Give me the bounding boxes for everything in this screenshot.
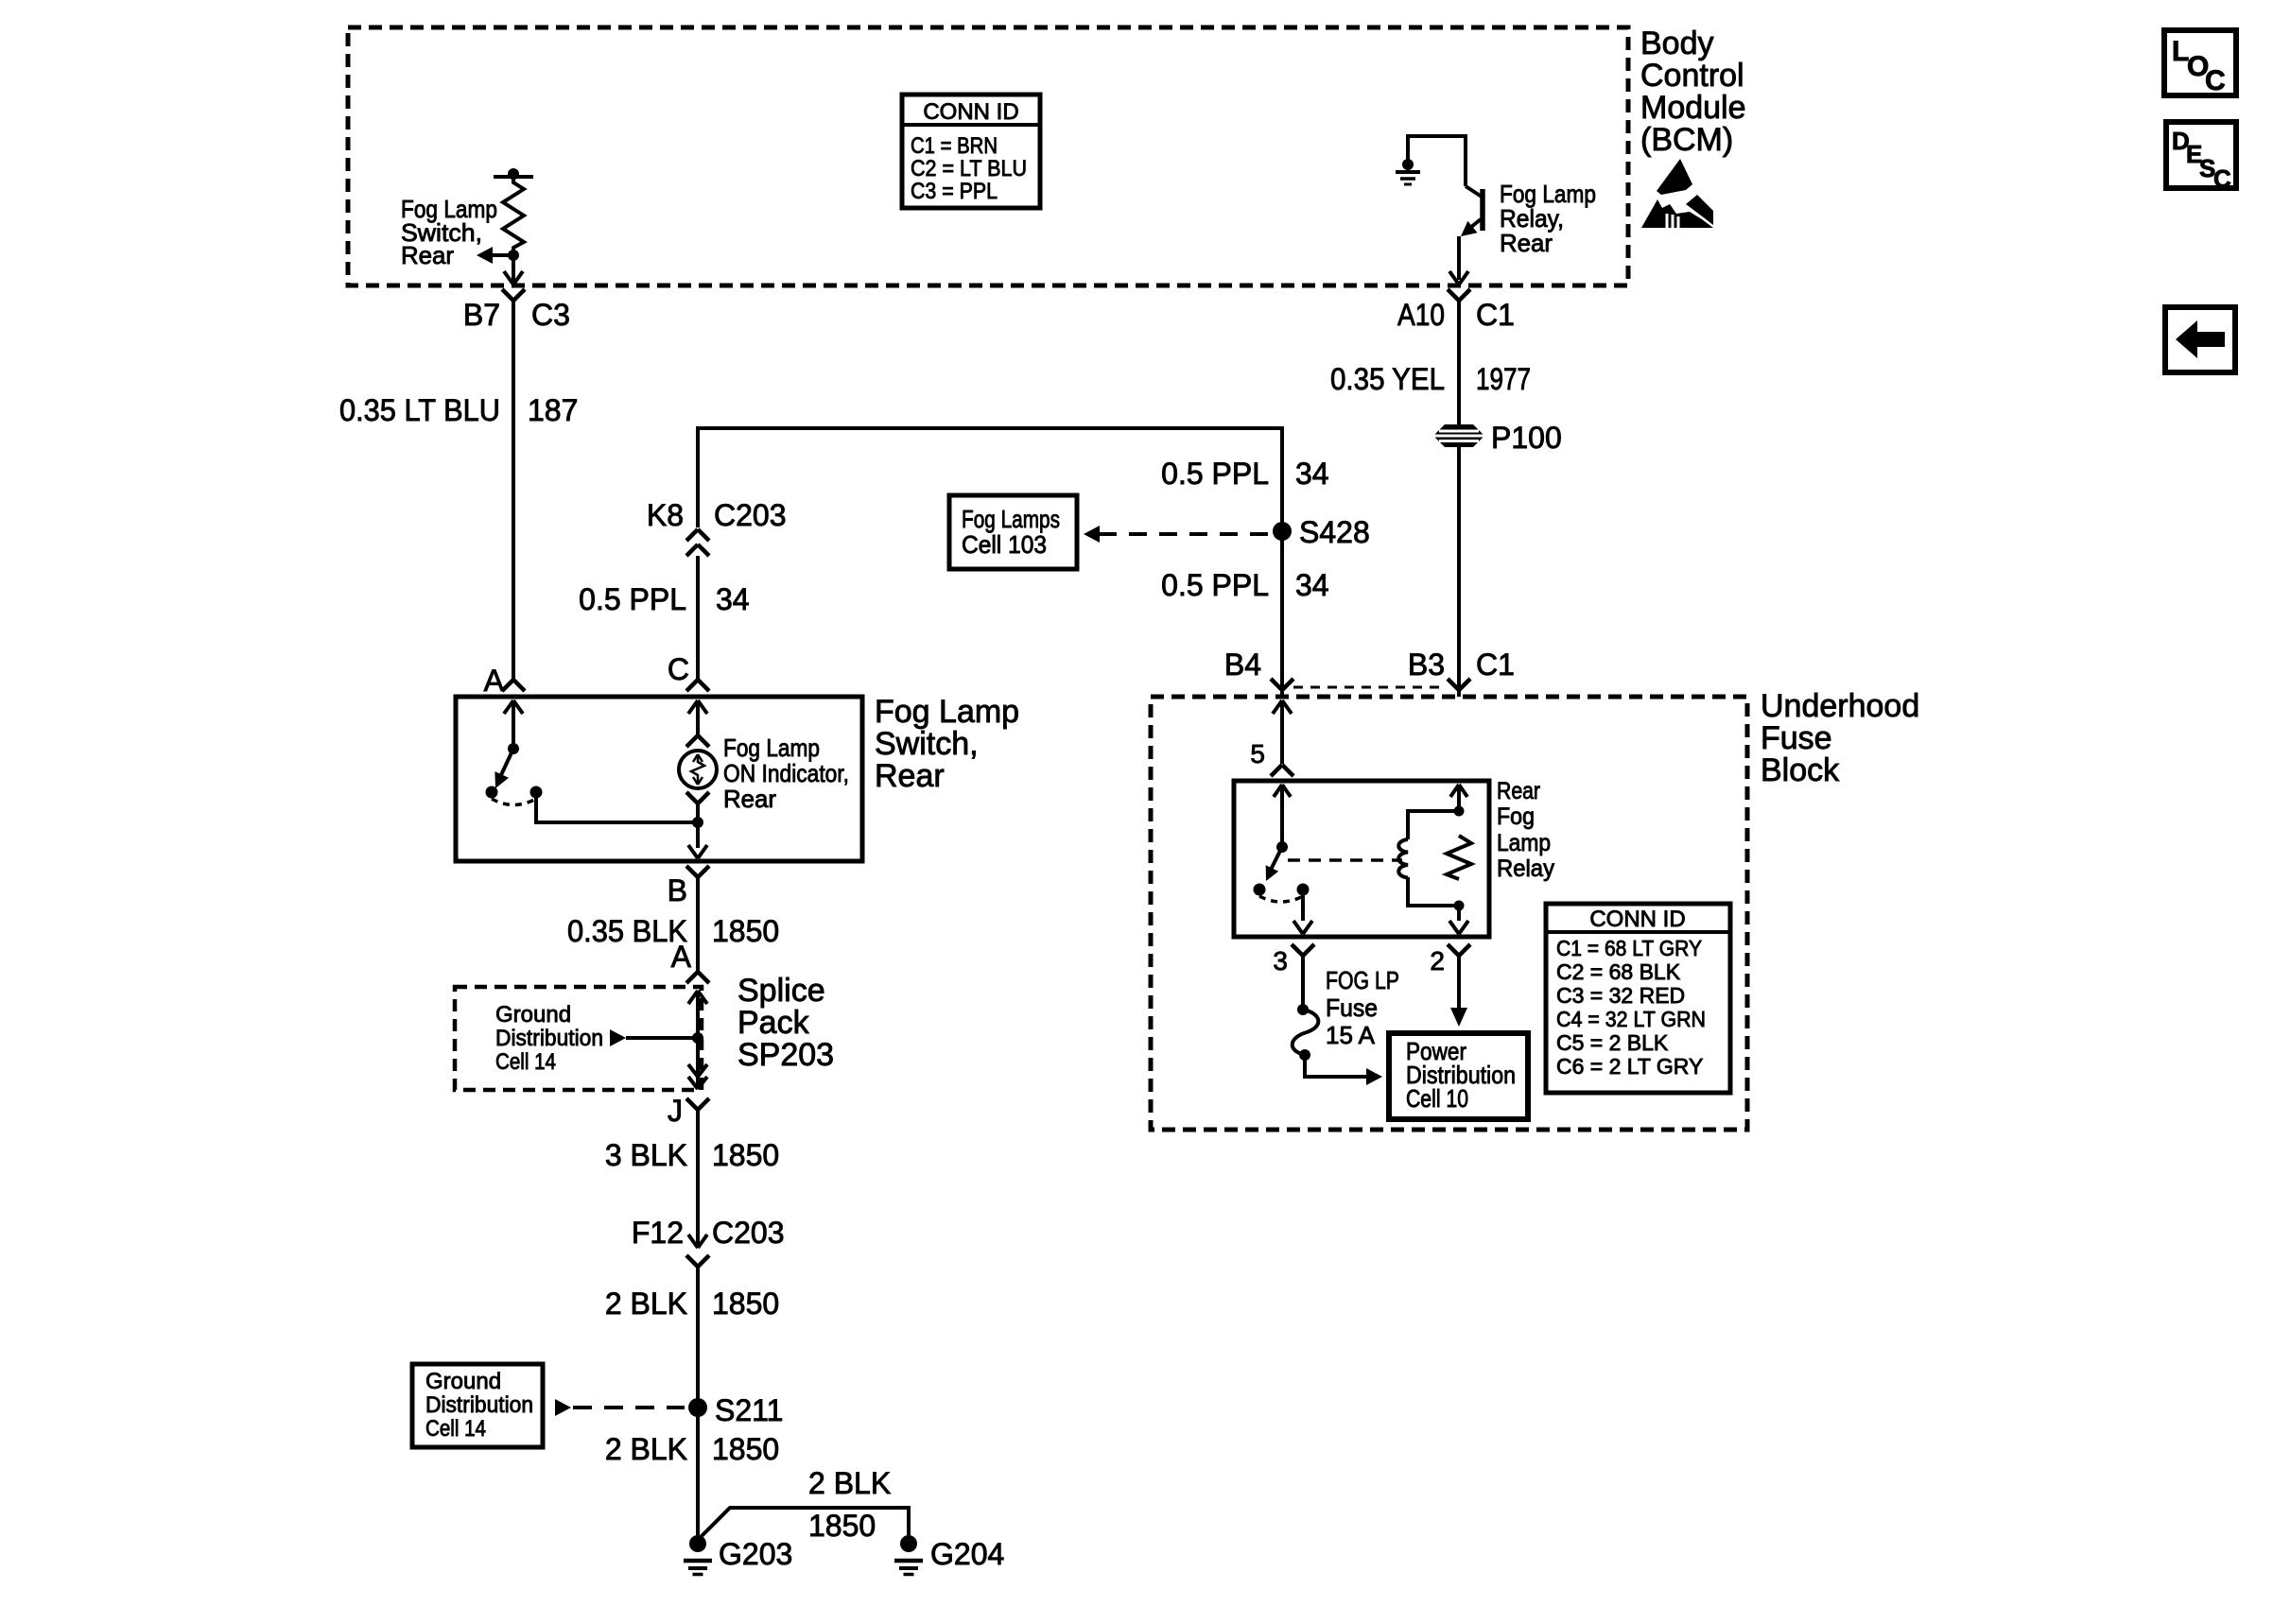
label FOG LP Fuse 15 A [1326, 966, 1399, 1049]
svg-text:Cell 10: Cell 10 [1406, 1084, 1468, 1113]
connector A10 / C1 (BCM) [1397, 289, 1515, 332]
wire S211 to G203 [696, 1408, 700, 1535]
svg-text:C2 = LT BLU: C2 = LT BLU [911, 156, 1027, 181]
svg-text:Lamp: Lamp [1497, 830, 1551, 856]
svg-text:C6 = 2 LT GRY: C6 = 2 LT GRY [1556, 1054, 1703, 1079]
svg-text:C2 = 68 BLK: C2 = 68 BLK [1556, 959, 1681, 984]
svg-text:Distribution: Distribution [425, 1392, 533, 1418]
svg-text:CONN ID: CONN ID [923, 99, 1018, 125]
svg-text:A10: A10 [1397, 298, 1445, 332]
svg-text:(BCM): (BCM) [1640, 122, 1733, 158]
connector B7 / C3 (BCM) [463, 289, 570, 332]
icon LOC box [2164, 30, 2236, 96]
ESD sensitive device symbol [1641, 159, 1713, 228]
svg-text:Distribution: Distribution [495, 1026, 603, 1051]
wire fuse to power distribution [1305, 1055, 1382, 1085]
svg-text:1850: 1850 [712, 914, 779, 948]
svg-text:Rear: Rear [1497, 778, 1540, 804]
label Fog Lamp Relay, Rear [1500, 180, 1596, 257]
svg-text:A: A [671, 940, 692, 974]
module U1 Body Control Module (BCM) dashed outline [348, 27, 1628, 285]
ground (BCM internal) [1396, 159, 1420, 184]
svg-text:Fog Lamp: Fog Lamp [875, 694, 1019, 730]
icon back-arrow box [2165, 307, 2235, 372]
resistor relay suppression resistor [1447, 836, 1471, 879]
label 2 BLK 1850 (G204 branch) [808, 1466, 891, 1543]
svg-text:3 BLK: 3 BLK [605, 1138, 687, 1172]
svg-text:C3 = PPL: C3 = PPL [911, 179, 998, 204]
connector B4 (underhood fuse block) [1224, 648, 1293, 697]
svg-text:0.35 LT BLU: 0.35 LT BLU [339, 393, 500, 427]
wire pin 5 into relay [1274, 785, 1291, 847]
splice S211 [688, 1393, 783, 1427]
svg-text:C1: C1 [1476, 648, 1515, 682]
box Fog Lamps Cell 103 [949, 495, 1077, 569]
label 0.5 PPL 34 (upper right) [1161, 457, 1328, 491]
splice S428 [1273, 515, 1370, 549]
wire pin 1 into relay [1450, 785, 1467, 811]
wire ground to transistor collector [1408, 136, 1466, 186]
svg-text:Switch,: Switch, [875, 726, 979, 762]
label Body Control Module (BCM) [1640, 26, 1746, 158]
label Ground Distribution Cell 14 (SP203) [495, 1002, 603, 1075]
svg-text:Cell 14: Cell 14 [495, 1049, 556, 1075]
svg-text:Fuse: Fuse [1761, 720, 1832, 756]
switch relay contact (rear fog lamp relay) [1254, 841, 1310, 902]
wire 2 BLK 1850 (C203 to S211) [696, 1267, 700, 1408]
connector relay pin 5 [1250, 739, 1293, 776]
wire 0.35 YEL 1977 [1457, 301, 1461, 425]
wire pin C into switch [688, 700, 707, 735]
wire switch common to node B [536, 792, 703, 828]
svg-text:0.5 PPL: 0.5 PPL [579, 582, 686, 616]
connector B3 / C1 (underhood fuse block) [1408, 648, 1515, 697]
dashed linkage relay armature to coil [1288, 858, 1402, 862]
svg-text:34: 34 [716, 582, 750, 616]
wire B4 into fuse block [1273, 700, 1292, 764]
svg-text:C1: C1 [1476, 298, 1515, 332]
svg-text:Control: Control [1640, 58, 1744, 94]
connector pin B (fog lamp switch) [668, 866, 709, 907]
svg-text:0.5 PPL: 0.5 PPL [1161, 457, 1269, 491]
svg-text:G204: G204 [930, 1537, 1004, 1571]
switch SW1 fog lamp switch contacts [486, 743, 543, 805]
label 0.35 BLK 1850 [567, 914, 779, 948]
table CONN ID (underhood fuse block connectors) [1546, 904, 1730, 1093]
wire S428 to B4 [1280, 531, 1284, 690]
table CONN ID (BCM connectors) [902, 95, 1040, 208]
box Ground Distribution Cell 14 (S211) [412, 1364, 543, 1447]
svg-text:1850: 1850 [712, 1138, 779, 1172]
svg-text:Body: Body [1640, 26, 1714, 61]
wire pin 3 to fuse [1301, 956, 1305, 1010]
svg-text:C1 = BRN: C1 = BRN [911, 133, 998, 159]
svg-text:Fog Lamp: Fog Lamp [723, 734, 820, 762]
svg-text:B4: B4 [1224, 648, 1261, 682]
connector pin C (fog lamp switch) [668, 652, 709, 691]
wire 3 BLK 1850 (J to C203) [696, 1110, 700, 1231]
dashed connector tie B4-B3 [1293, 686, 1446, 689]
svg-text:1977: 1977 [1476, 362, 1531, 396]
inline connector P100 [1433, 421, 1562, 455]
svg-text:0.5 PPL: 0.5 PPL [1161, 568, 1269, 602]
label 2 BLK 1850 (upper) [605, 1287, 779, 1321]
connector pin A (splice pack) [671, 940, 709, 983]
wire pin A into switch [504, 700, 523, 749]
svg-text:0.35 BLK: 0.35 BLK [567, 914, 687, 948]
label 0.5 PPL 34 (left) [579, 582, 749, 616]
label 0.5 PPL 34 (lower right) [1161, 568, 1328, 602]
svg-text:C3 = 32 RED: C3 = 32 RED [1556, 983, 1685, 1008]
component fog lamp switch box [456, 697, 862, 861]
svg-text:1850: 1850 [712, 1432, 779, 1466]
svg-text:Module: Module [1640, 90, 1746, 126]
svg-text:Fuse: Fuse [1326, 993, 1378, 1022]
resistor fog-lamp-switch input pull-up (inside BCM) [494, 168, 533, 261]
svg-text:Rear: Rear [875, 758, 945, 794]
svg-text:ON Indicator,: ON Indicator, [723, 759, 849, 787]
svg-text:187: 187 [528, 393, 578, 427]
connector F12 / C203 [632, 1216, 785, 1267]
component rear fog lamp relay box [1234, 781, 1489, 937]
svg-text:C: C [668, 652, 689, 686]
svg-text:C203: C203 [712, 1216, 785, 1250]
svg-text:C5 = 2 BLK: C5 = 2 BLK [1556, 1030, 1669, 1055]
svg-text:0.35 YEL: 0.35 YEL [1330, 362, 1445, 396]
svg-text:B7: B7 [463, 298, 500, 332]
svg-text:1850: 1850 [808, 1509, 876, 1543]
ground G203 [684, 1535, 792, 1575]
svg-text:Block: Block [1761, 752, 1840, 788]
svg-text:Rear: Rear [1500, 229, 1553, 257]
svg-text:Ground: Ground [495, 1002, 571, 1028]
svg-text:34: 34 [1295, 457, 1329, 491]
label Splice Pack SP203 [737, 973, 834, 1073]
svg-text:Underhood: Underhood [1761, 688, 1919, 724]
svg-text:C1 = 68 LT GRY: C1 = 68 LT GRY [1556, 936, 1702, 960]
svg-text:B: B [668, 873, 687, 907]
svg-text:5: 5 [1250, 739, 1265, 769]
arrow left from resistor node [477, 247, 513, 264]
svg-text:C203: C203 [714, 498, 787, 532]
svg-text:P100: P100 [1491, 421, 1562, 455]
wire node B to box edge [688, 822, 707, 858]
label Fog Lamp Switch, Rear (BCM internal) [401, 195, 497, 269]
svg-text:Fog Lamps: Fog Lamps [962, 505, 1060, 533]
svg-text:34: 34 [1295, 568, 1329, 602]
svg-text:2 BLK: 2 BLK [605, 1287, 687, 1321]
connector pin A (fog lamp switch) [484, 664, 525, 698]
ground G204 [894, 1535, 1004, 1575]
svg-text:Splice: Splice [737, 973, 825, 1009]
svg-text:1850: 1850 [712, 1287, 779, 1321]
wire 0.35 BLK 1850 (B to splice pack) [696, 877, 700, 972]
connector pin J (splice pack) [668, 1094, 709, 1128]
svg-text:A: A [484, 664, 505, 698]
svg-text:Rear: Rear [401, 241, 454, 269]
label Rear Fog Lamp Relay [1497, 778, 1554, 882]
wire branch to G204 [698, 1508, 909, 1540]
wire P100 to B3 [1457, 446, 1461, 690]
svg-text:S428: S428 [1299, 515, 1370, 549]
svg-text:Relay: Relay [1497, 855, 1554, 882]
svg-text:Cell 14: Cell 14 [425, 1416, 486, 1442]
wire 0.5 PPL 34 top run [698, 428, 1282, 531]
transistor Q1 fog lamp relay driver (inside BCM) [1449, 186, 1483, 285]
arrow ground distribution tie (SP203) [610, 1029, 693, 1046]
svg-text:C: C [2213, 164, 2231, 193]
label Underhood Fuse Block [1761, 688, 1919, 788]
svg-text:G203: G203 [719, 1537, 792, 1571]
connector relay pin 3 [1273, 944, 1314, 976]
svg-text:CONN ID: CONN ID [1589, 907, 1685, 932]
svg-text:F12: F12 [632, 1216, 684, 1250]
wire resistor to BCM edge with down arrow [504, 255, 523, 285]
svg-text:2: 2 [1430, 946, 1445, 976]
wire relay contact to pin 3 [1293, 890, 1312, 934]
svg-text:Ground: Ground [425, 1369, 501, 1394]
wire relay to pin 2 [1449, 906, 1468, 934]
svg-text:2 BLK: 2 BLK [808, 1466, 891, 1500]
wire through splice pack [688, 991, 707, 1089]
connector K8 / C203 [647, 498, 787, 556]
dashed arrow S428 to Fog Lamps cell [1084, 526, 1271, 543]
inductor relay coil [1398, 806, 1464, 911]
box Power Distribution Cell 10 [1389, 1033, 1528, 1119]
dashed arrow S211 ground distribution tie [555, 1399, 685, 1416]
wire pin 2 to power distribution [1450, 956, 1467, 1027]
connector relay pin 2 [1430, 944, 1470, 976]
svg-text:3: 3 [1273, 946, 1288, 976]
wire K8 to switch C [696, 556, 700, 680]
svg-text:Rear: Rear [723, 785, 776, 813]
label 3 BLK 1850 [605, 1138, 779, 1172]
fuse FOG LP 15 A [1293, 1004, 1319, 1061]
connector indicator top [686, 735, 709, 747]
label 0.35 LT BLU 187 [339, 393, 578, 427]
icon DESC box [2166, 122, 2236, 193]
svg-text:B3: B3 [1408, 648, 1445, 682]
svg-text:K8: K8 [647, 498, 684, 532]
component splice pack SP203 dashed box [455, 987, 702, 1090]
svg-text:J: J [668, 1094, 683, 1128]
svg-text:FOG LP: FOG LP [1326, 966, 1399, 994]
svg-text:2 BLK: 2 BLK [605, 1432, 687, 1466]
label Fog Lamp ON Indicator, Rear [723, 734, 849, 813]
svg-text:C4 = 32 LT GRN: C4 = 32 LT GRN [1556, 1007, 1706, 1031]
svg-text:15 A: 15 A [1326, 1021, 1376, 1049]
svg-text:Fog: Fog [1497, 803, 1535, 830]
wire 0.35 LT BLU 187 (B7 to switch A) [512, 301, 515, 680]
module underhood fuse block dashed outline [1151, 697, 1747, 1130]
connector indicator bottom [686, 792, 709, 822]
lamp DS1 fog lamp ON indicator [679, 751, 717, 788]
svg-text:S211: S211 [715, 1393, 783, 1427]
svg-text:C3: C3 [531, 298, 570, 332]
label Fog Lamp Switch, Rear (component name) [875, 694, 1019, 794]
svg-text:C: C [2205, 65, 2226, 96]
label 2 BLK 1850 (lower) [605, 1432, 779, 1466]
label 0.35 YEL 1977 [1330, 362, 1531, 396]
svg-text:SP203: SP203 [737, 1037, 834, 1073]
svg-text:Cell 103: Cell 103 [962, 530, 1047, 559]
svg-text:Pack: Pack [737, 1005, 810, 1041]
